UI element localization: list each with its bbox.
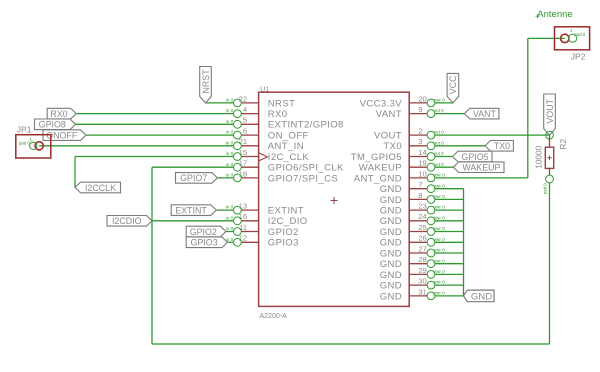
svg-text:EXTINT2/GPIO8: EXTINT2/GPIO8 (268, 120, 344, 131)
svg-text:1: 1 (30, 137, 33, 142)
svg-text:19: 19 (418, 159, 427, 168)
svg-text:TM_GPIO5: TM_GPIO5 (351, 152, 402, 163)
svg-text:WAKEUP: WAKEUP (359, 163, 402, 174)
svg-text:20: 20 (418, 94, 427, 103)
svg-text:4: 4 (243, 105, 248, 114)
svg-text:GND: GND (380, 270, 402, 281)
svg-text:12: 12 (239, 234, 248, 243)
svg-text:GND: GND (380, 206, 402, 217)
svg-text:5: 5 (243, 116, 247, 125)
svg-text:29: 29 (418, 266, 427, 275)
svg-text:pad 0: pad 0 (543, 183, 548, 194)
svg-text:I2C_CLK: I2C_CLK (268, 152, 310, 163)
svg-text:I2CCLK: I2CCLK (85, 183, 116, 193)
svg-text:GPIO5: GPIO5 (461, 152, 488, 162)
svg-text:VOUT: VOUT (374, 131, 402, 142)
svg-text:GPIO6/SPI_CLK: GPIO6/SPI_CLK (268, 163, 344, 174)
svg-text:NRST: NRST (201, 69, 211, 94)
svg-text:pwr 0: pwr 0 (434, 183, 446, 188)
svg-text:pwr 0: pwr 0 (434, 280, 446, 285)
svg-text:28: 28 (418, 255, 427, 264)
svg-text:pwr 0: pwr 0 (434, 291, 446, 296)
svg-text:pwr 0: pwr 0 (434, 194, 446, 199)
svg-text:I2CDIO: I2CDIO (112, 216, 142, 226)
svg-text:VOUT: VOUT (545, 98, 555, 123)
svg-text:GND: GND (380, 227, 402, 238)
svg-text:TX0: TX0 (494, 141, 510, 151)
svg-text:io 0: io 0 (226, 151, 234, 156)
svg-text:GND: GND (380, 248, 402, 259)
svg-text:15: 15 (239, 148, 248, 157)
svg-text:VANT: VANT (473, 109, 497, 119)
svg-text:18: 18 (239, 169, 248, 178)
svg-text:in 0: in 0 (226, 140, 234, 145)
svg-text:pwr 0: pwr 0 (434, 173, 446, 178)
svg-text:out 0: out 0 (434, 140, 445, 145)
svg-text:ON_OFF: ON_OFF (268, 131, 309, 142)
svg-text:GPIO7/SPI_CS: GPIO7/SPI_CS (268, 173, 338, 184)
svg-text:pwr 0: pwr 0 (434, 205, 446, 210)
svg-text:EXTINT: EXTINT (175, 205, 207, 215)
svg-text:GND: GND (380, 281, 402, 292)
svg-text:30: 30 (418, 277, 427, 286)
svg-text:21: 21 (239, 137, 248, 146)
svg-text:14: 14 (418, 148, 427, 157)
svg-text:7: 7 (418, 180, 422, 189)
svg-text:GND: GND (380, 291, 402, 302)
svg-text:27: 27 (418, 244, 427, 253)
svg-text:GPIO2: GPIO2 (268, 227, 299, 238)
svg-text:GPIO7: GPIO7 (180, 173, 207, 183)
svg-text:io 0: io 0 (226, 173, 234, 178)
svg-text:24: 24 (418, 212, 427, 221)
svg-text:23: 23 (418, 202, 427, 211)
svg-text:io 0: io 0 (226, 215, 234, 220)
svg-text:VCC3.3V: VCC3.3V (360, 98, 403, 109)
svg-text:GPIO3: GPIO3 (268, 238, 299, 249)
svg-text:10000: 10000 (534, 145, 544, 168)
svg-text:io 0: io 0 (226, 162, 234, 167)
svg-text:JP1: JP1 (17, 125, 32, 135)
svg-text:pwr 0: pwr 0 (434, 98, 446, 103)
svg-text:EXTINT: EXTINT (268, 206, 304, 217)
svg-text:in 0: in 0 (226, 130, 234, 135)
svg-text:VANT: VANT (376, 109, 402, 120)
svg-text:13: 13 (239, 202, 248, 211)
svg-text:25: 25 (418, 223, 427, 232)
svg-text:6: 6 (243, 127, 247, 136)
svg-text:3: 3 (418, 137, 422, 146)
svg-text:17: 17 (239, 159, 248, 168)
svg-text:out 0: out 0 (434, 108, 445, 113)
svg-text:2: 2 (418, 127, 422, 136)
svg-text:in 0: in 0 (226, 108, 234, 113)
svg-text:GND: GND (380, 195, 402, 206)
svg-text:io 0: io 0 (226, 226, 234, 231)
svg-text:WAKEUP: WAKEUP (462, 163, 500, 173)
svg-text:in 0: in 0 (226, 98, 234, 103)
svg-text:31: 31 (418, 287, 427, 296)
svg-text:I2C_DIO: I2C_DIO (268, 216, 308, 227)
svg-text:pad 0: pad 0 (575, 32, 586, 37)
svg-text:TX0: TX0 (383, 141, 402, 152)
svg-text:pwr 0: pwr 0 (434, 258, 446, 263)
svg-text:in 0: in 0 (226, 205, 234, 210)
svg-text:9: 9 (418, 105, 422, 114)
svg-text:1: 1 (570, 28, 573, 33)
svg-text:8: 8 (418, 191, 422, 200)
svg-text:GPIO3: GPIO3 (191, 238, 218, 248)
svg-text:GND: GND (380, 216, 402, 227)
svg-text:RX0: RX0 (268, 109, 288, 120)
svg-text:out 0: out 0 (434, 130, 445, 135)
svg-text:GND: GND (380, 184, 402, 195)
svg-text:pwr 0: pwr 0 (434, 248, 446, 253)
svg-text:GND: GND (471, 291, 492, 302)
svg-text:in 0: in 0 (226, 119, 234, 124)
svg-text:16: 16 (239, 212, 248, 221)
svg-text:pwr 0: pwr 0 (434, 226, 446, 231)
svg-text:U1: U1 (260, 86, 269, 93)
svg-text:GND: GND (380, 238, 402, 249)
svg-text:R2: R2 (558, 139, 568, 150)
svg-text:A2200-A: A2200-A (260, 313, 288, 320)
svg-text:26: 26 (418, 234, 427, 243)
svg-text:out 0: out 0 (434, 162, 445, 167)
svg-text:GPIO8: GPIO8 (39, 120, 66, 130)
svg-text:pwr 0: pwr 0 (434, 237, 446, 242)
svg-text:pwr 0: pwr 0 (434, 215, 446, 220)
svg-text:out 0: out 0 (434, 151, 445, 156)
svg-text:NRST: NRST (268, 98, 295, 109)
svg-text:VCC: VCC (448, 75, 458, 94)
svg-text:ANT_GND: ANT_GND (354, 173, 402, 184)
svg-text:GPIO2: GPIO2 (190, 227, 217, 237)
svg-text:11: 11 (239, 223, 247, 232)
svg-text:RX0: RX0 (50, 109, 67, 119)
svg-text:ANT_IN: ANT_IN (268, 141, 304, 152)
svg-text:GND: GND (380, 259, 402, 270)
svg-text:Antenne: Antenne (537, 9, 572, 20)
svg-text:10: 10 (418, 169, 427, 178)
svg-text:pwr 0: pwr 0 (434, 269, 446, 274)
svg-text:JP2: JP2 (571, 51, 586, 61)
svg-text:22: 22 (239, 94, 248, 103)
